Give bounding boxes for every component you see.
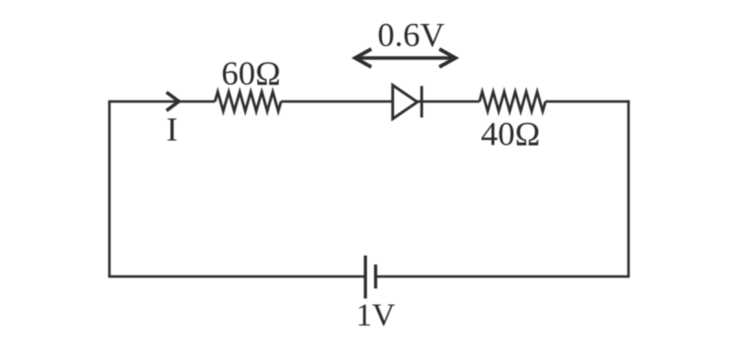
wire bottom left segment <box>108 275 365 278</box>
svg-text:40Ω: 40Ω <box>481 116 540 153</box>
wire right vertical <box>627 100 630 276</box>
battery B1 long plate (positive) <box>364 256 367 299</box>
svg-text:60Ω: 60Ω <box>221 56 280 93</box>
svg-text:I: I <box>166 112 177 149</box>
current arrow on top wire <box>167 92 179 110</box>
wire resistor R1 to diode D1 <box>281 100 393 103</box>
svg-text:1V: 1V <box>356 297 395 333</box>
battery B1 short plate (negative) <box>374 265 377 289</box>
diode D1 cathode bar <box>420 86 423 118</box>
wire left vertical <box>108 102 111 277</box>
wire bottom right segment <box>376 275 630 278</box>
voltage span double arrow for 0.6V <box>355 49 455 67</box>
resistor R2 40 ohm zigzag <box>480 92 546 111</box>
svg-text:0.6V: 0.6V <box>377 17 445 54</box>
diode D1 triangle anode <box>393 85 418 119</box>
wire resistor R2 to right corner <box>546 100 630 103</box>
wire top: left corner to resistor R1 <box>108 100 215 103</box>
resistor R1 60 ohm zigzag <box>215 92 281 111</box>
wire diode D1 to resistor R2 <box>417 100 479 103</box>
